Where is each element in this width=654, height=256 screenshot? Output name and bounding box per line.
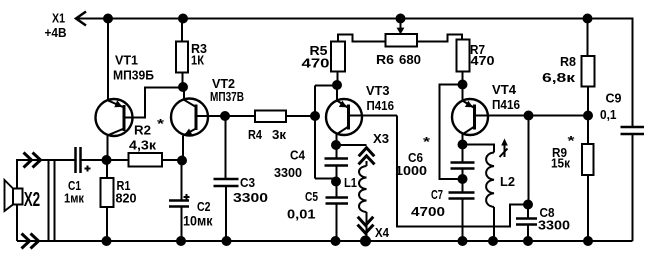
node I junction dot (C6/C7 tap) (458, 174, 468, 184)
wire speaker bottom lead (16, 205, 18, 242)
svg-text:1000: 1000 (395, 164, 427, 178)
svg-text:П416: П416 (492, 97, 520, 112)
svg-text:470: 470 (471, 54, 495, 68)
node H junction dot (VT4 collector/C6/L2) (458, 140, 468, 150)
junction dot R7/VT4 emitter (458, 80, 468, 90)
wire VT4 collector down (462, 134, 464, 145)
junction dot rail/R3 (178, 14, 188, 24)
wire VT3 base run to ground bus (397, 116, 528, 227)
svg-text:10мк: 10мк (183, 214, 213, 229)
connector X1 arrow (76, 12, 86, 26)
L2 tuning arrow (500, 143, 508, 157)
svg-text:VT4: VT4 (492, 82, 517, 97)
bottom rail junction dots (102, 236, 112, 246)
resistor R1 (106, 160, 108, 241)
transistor VT1 (96, 99, 133, 136)
wire VT3 emitter up (336, 85, 338, 101)
capacitor C4 (336, 145, 338, 159)
wire VT4 collector to L2 (463, 145, 495, 153)
wire connector socket line 2 (54, 160, 56, 241)
svg-text:МП37В: МП37В (210, 89, 244, 104)
svg-text:0,01: 0,01 (287, 208, 316, 222)
capacitor C5 (326, 198, 349, 204)
transistor VT4 (452, 99, 488, 135)
svg-text:0,1: 0,1 (600, 108, 617, 122)
svg-text:1К: 1К (191, 54, 204, 68)
svg-text:X1: X1 (52, 11, 65, 26)
wire VT2 emitter down (182, 135, 184, 160)
resistor R9 (587, 116, 589, 242)
node G junction dot (C4/C5 tap) (331, 177, 341, 187)
node A junction dot (C1/R1/VT1 collector/R2) (102, 155, 112, 165)
svg-text:L1: L1 (344, 176, 357, 190)
wire VT1 emitter to rail (107, 19, 109, 101)
loudspeaker X2 body (13, 189, 23, 205)
inductor L2 (486, 153, 494, 207)
svg-text:3300: 3300 (233, 190, 268, 205)
junction dot R5/VT3 emitter (332, 80, 342, 90)
capacitor C9 (621, 127, 645, 134)
C1 polarity plus (85, 166, 91, 172)
wire collector node to X3 (336, 144, 367, 146)
node D junction dot (VT2 base/C3/R4) (220, 111, 230, 121)
wire VT4 emitter tap (to C6/C7 midpoint) (440, 85, 463, 180)
connector X2 plug arrows top (24, 153, 41, 168)
node F junction dot (VT3 collector/C4/X3 wire) (331, 140, 341, 150)
connector X2 plug arrows bottom (22, 234, 39, 249)
svg-text:П416: П416 (367, 98, 395, 113)
capacitor C7 (449, 193, 475, 199)
node C junction dot (VT2 emitter/R2/C2) (177, 156, 187, 166)
wire VT4 base down (528, 116, 530, 205)
node B junction dot (R3/VT1 base/VT2 collector) (178, 82, 188, 92)
svg-text:L2: L2 (500, 175, 515, 189)
svg-text:6,8к: 6,8к (542, 71, 576, 85)
svg-text:МП39Б: МП39Б (113, 68, 154, 83)
resistor R3 (181, 19, 184, 88)
junction dot rail/R8 (583, 14, 593, 24)
svg-text:C4: C4 (290, 149, 305, 163)
resistor R5 (338, 35, 386, 86)
svg-text:3300: 3300 (538, 218, 570, 233)
wire VT4 emitter up (462, 85, 464, 101)
junction dot rail/VT1 (103, 14, 113, 24)
svg-text:C2: C2 (197, 200, 211, 214)
svg-text:R6: R6 (376, 52, 394, 67)
resistor R8 (587, 19, 590, 116)
svg-text:R4: R4 (248, 127, 263, 142)
VT2 base lead (196, 115, 225, 117)
svg-text:3к: 3к (272, 127, 286, 142)
svg-text:X4: X4 (375, 226, 389, 240)
svg-text:680: 680 (399, 52, 421, 67)
svg-text:4700: 4700 (411, 204, 445, 219)
wire VT1 collector down (107, 135, 109, 160)
capacitor C6 (462, 145, 464, 163)
connector X4 plug arrows (358, 217, 374, 234)
wire top supply rail (76, 18, 633, 20)
R6 wiper (400, 19, 402, 29)
wire connector socket line 1 (48, 160, 50, 241)
wire C1 right to node (81, 159, 108, 161)
node J junction dot (C8 top) (523, 200, 533, 210)
capacitor C3 (225, 116, 228, 241)
wire speaker top lead (17, 160, 76, 189)
svg-text:C3: C3 (240, 176, 255, 190)
VT1 base lead (124, 88, 183, 118)
svg-text:X3: X3 (373, 132, 389, 146)
svg-text:VT3: VT3 (366, 83, 390, 98)
node E junction dot (R4 right) (310, 111, 320, 121)
transistor VT3 (326, 99, 362, 135)
svg-text:+4В: +4В (45, 25, 67, 40)
svg-text:C5: C5 (305, 190, 318, 204)
svg-text:R2: R2 (134, 124, 151, 138)
junction dot VT4 base lead (524, 111, 534, 121)
resistor R7 (457, 40, 470, 72)
potentiometer R6 (386, 34, 418, 47)
wire right edge vertical (C9 to bottom rail) (632, 134, 634, 241)
loudspeaker X2 horn (5, 180, 14, 211)
wire C6-C7 link (462, 169, 464, 193)
VT3 base lead (349, 115, 398, 117)
svg-text:1мк: 1мк (64, 192, 85, 206)
svg-text:15к: 15к (551, 157, 571, 171)
transistor VT2 (171, 99, 208, 136)
wire C4-C5 link (336, 166, 338, 198)
svg-text:C6: C6 (408, 151, 423, 165)
wire bottom ground rail (17, 240, 633, 242)
wire VT3 collector down (336, 134, 338, 145)
node K junction dot (R8/R9/VT4 base) (583, 111, 593, 121)
svg-text:C9: C9 (606, 92, 622, 106)
C2 polarity plus (184, 194, 190, 200)
capacitor C1 (76, 147, 81, 173)
wire right edge vertical (rail to C9) (632, 18, 634, 128)
svg-text:820: 820 (116, 192, 137, 206)
wire VT2 collector up (183, 87, 185, 100)
svg-text:VT1: VT1 (115, 53, 138, 68)
svg-text:4,3к: 4,3к (129, 139, 157, 153)
VT4 base lead (475, 115, 589, 117)
capacitor C8 (527, 205, 529, 219)
wire node E vertical (emitter tap) (315, 86, 337, 179)
svg-text:470: 470 (302, 57, 330, 71)
inductor L1 (366, 161, 368, 166)
svg-text:C7: C7 (431, 188, 443, 202)
capacitor C2 (181, 161, 183, 242)
connector X3 plug arrows (359, 148, 375, 165)
resistor R4 (225, 115, 315, 117)
resistor R2 (107, 159, 183, 161)
svg-text:R8: R8 (560, 55, 576, 69)
svg-text:X2: X2 (24, 189, 41, 211)
svg-text:3300: 3300 (274, 165, 302, 180)
